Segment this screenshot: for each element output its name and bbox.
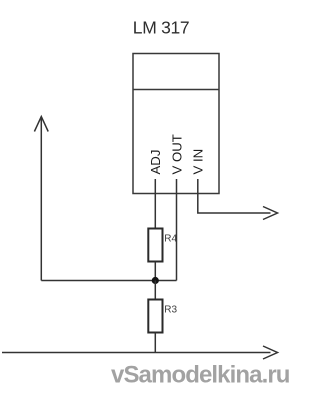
svg-text:ADJ: ADJ bbox=[148, 150, 163, 175]
junction node dot bbox=[152, 277, 159, 284]
arrowhead bottom rail (right) bbox=[263, 346, 278, 359]
wire junction to R3 bbox=[154, 281, 156, 300]
wire V IN pin down then right bbox=[198, 179, 271, 213]
svg-text:vSamodelkina.ru: vSamodelkina.ru bbox=[111, 362, 290, 389]
wire ADJ pin down to R4 bbox=[154, 179, 156, 229]
resistor R4 bbox=[148, 229, 162, 262]
wire bottom rail bbox=[2, 352, 271, 354]
svg-text:R3: R3 bbox=[164, 305, 177, 316]
wire V OUT pin down to junction bbox=[176, 179, 178, 281]
svg-text:V IN: V IN bbox=[191, 149, 206, 175]
wire R3 bottom to ground rail bbox=[154, 333, 156, 353]
wire horizontal junction line bbox=[41, 280, 176, 282]
wire R4 bottom to junction node bbox=[154, 262, 156, 281]
svg-text:V OUT: V OUT bbox=[169, 134, 184, 174]
svg-text:LM 317: LM 317 bbox=[133, 18, 190, 38]
arrowhead up (left branch) bbox=[34, 117, 48, 132]
wire left branch vertical (to up arrow) bbox=[40, 117, 42, 281]
op-amp / regulator body U1 (LM317 box) bbox=[133, 54, 219, 194]
resistor R3 bbox=[148, 300, 162, 333]
arrowhead V IN output (right) bbox=[263, 207, 278, 220]
svg-text:R4: R4 bbox=[164, 234, 177, 245]
